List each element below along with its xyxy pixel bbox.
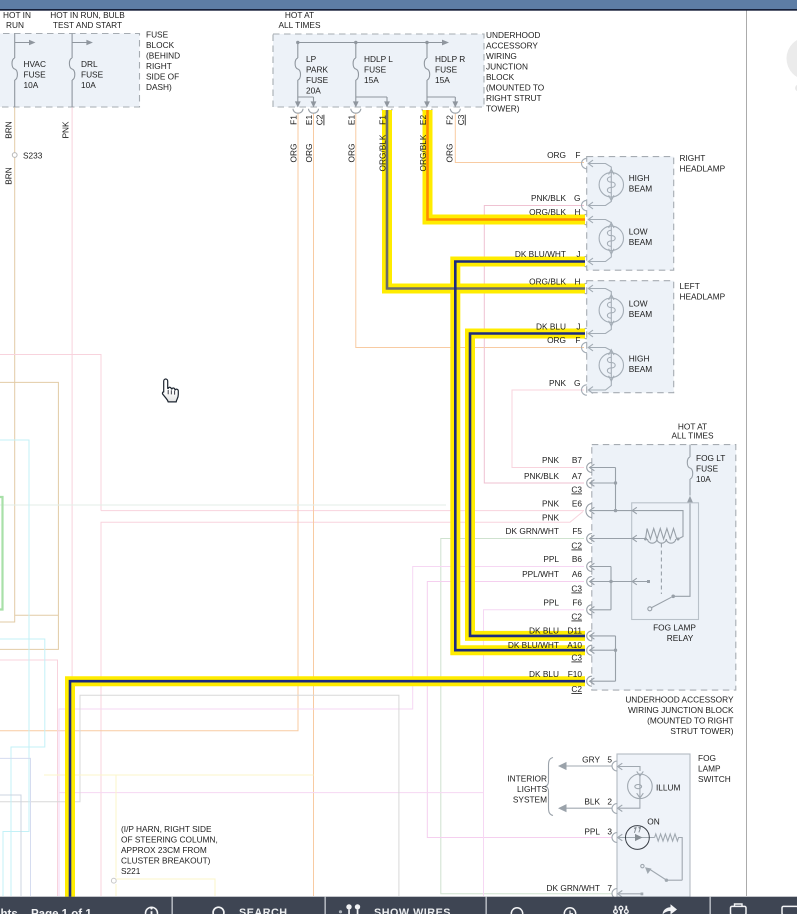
fog box junction dots: [614, 481, 617, 484]
svg-text:B7: B7: [572, 455, 583, 465]
svg-text:PPL: PPL: [543, 554, 559, 564]
svg-text:ORG/BLK: ORG/BLK: [529, 277, 566, 287]
svg-text:FUSE: FUSE: [696, 464, 719, 474]
fog box junction vertical B6-F6: [610, 567, 612, 610]
wire ORG/BLK highlight from HDLP L fuse F1 to left headlamp H: [387, 110, 585, 289]
svg-text:3: 3: [607, 826, 612, 836]
svg-text:BEAM: BEAM: [629, 309, 653, 319]
svg-text:HOT IN: HOT IN: [3, 10, 31, 20]
svg-text:ACCESSORY: ACCESSORY: [486, 41, 538, 51]
wire PNK from DRL fuse down to junction: [71, 107, 73, 896]
underhood accessory wiring junction block dashed box (fog relay): [592, 445, 736, 690]
svg-text:C2: C2: [571, 541, 582, 551]
svg-text:RUN: RUN: [6, 20, 24, 30]
svg-text:JUNCTION: JUNCTION: [486, 62, 528, 72]
svg-text:ALL TIMES: ALL TIMES: [279, 20, 321, 30]
svg-text:PARK: PARK: [306, 65, 328, 75]
svg-text:A10: A10: [567, 640, 582, 650]
relay A6 contact square: [647, 580, 650, 583]
wire BRN from HVAC fuse to S233: [14, 107, 16, 153]
fog lt fuse element: [687, 457, 692, 479]
svg-text:BLOCK: BLOCK: [486, 72, 515, 82]
wire DK GRN/WHT from fog block pin F5 to switch pin 7: [441, 539, 612, 894]
svg-text:E2: E2: [418, 115, 428, 126]
ui circle top right: [787, 37, 797, 80]
svg-text:HIGH: HIGH: [629, 173, 650, 183]
wire ORG from LP PARK fuse pin E1 down page: [313, 113, 315, 896]
relay switch contact circle: [648, 607, 652, 611]
svg-text:Page 1 of 1: Page 1 of 1: [31, 908, 92, 914]
fog box pin F5 line: [590, 538, 646, 540]
svg-text:(I/P HARN, RIGHT SIDE: (I/P HARN, RIGHT SIDE: [121, 824, 212, 834]
fog switch ON indicator: [626, 826, 650, 850]
svg-text:PPL: PPL: [543, 598, 559, 608]
svg-text:G: G: [574, 193, 580, 203]
svg-text:E1: E1: [346, 115, 356, 126]
wire ORG/BLK core (HDLP R E2): [428, 110, 586, 220]
svg-text:SHOW WIRES: SHOW WIRES: [374, 907, 451, 914]
fog switch pin7 end square: [641, 893, 644, 896]
svg-text:G: G: [574, 378, 580, 388]
svg-text:hts: hts: [1, 908, 18, 914]
svg-text:SWITCH: SWITCH: [698, 774, 731, 784]
svg-text:SIDE OF: SIDE OF: [146, 72, 179, 82]
svg-text:E1: E1: [304, 115, 314, 126]
fog box pin B6 line: [590, 566, 612, 568]
svg-text:DK GRN/WHT: DK GRN/WHT: [506, 526, 559, 536]
left headlamp dashed box: [587, 281, 674, 393]
svg-text:ON: ON: [647, 817, 659, 827]
relay output up arrowhead: [687, 496, 693, 503]
svg-text:PNK: PNK: [542, 498, 560, 508]
fog lt fuse leads: [689, 445, 691, 496]
svg-text:C3: C3: [571, 485, 582, 495]
fuse LP PARK leads: [298, 43, 314, 103]
fuse DRL element: [69, 58, 74, 80]
svg-text:A7: A7: [572, 471, 583, 481]
fog switch arm arrowhead: [645, 867, 652, 874]
svg-text:E6: E6: [572, 498, 583, 508]
wire GRN stub left edge: [0, 497, 3, 610]
svg-text:LOW: LOW: [629, 299, 648, 309]
svg-text:FUSE: FUSE: [435, 65, 458, 75]
svg-text:C3: C3: [571, 584, 582, 594]
pin down arrowheads: [295, 101, 301, 107]
wire PNK stub left edge: [0, 660, 58, 896]
fuse HDLP R leads: [427, 43, 455, 103]
svg-text:INTERIOR: INTERIOR: [507, 774, 547, 784]
svg-text:ORG/BLK: ORG/BLK: [529, 207, 566, 217]
svg-text:PNK: PNK: [549, 378, 567, 388]
wire ORG/BLK highlight from HDLP R fuse E2 to right headlamp H: [428, 110, 586, 220]
wire ORG from HDLP L fuse pin E1 to left headlamp pin F: [356, 113, 584, 348]
svg-text:DK BLU: DK BLU: [529, 626, 559, 636]
wire PPL vertical stub continuing: [483, 793, 485, 896]
svg-text:DK BLU/WHT: DK BLU/WHT: [515, 249, 566, 259]
svg-text:7: 7: [607, 883, 612, 893]
svg-text:FUSE: FUSE: [81, 70, 104, 80]
svg-text:C2: C2: [571, 612, 582, 622]
svg-text:LEFT: LEFT: [680, 281, 700, 291]
svg-text:BRN: BRN: [4, 167, 14, 185]
fog box pin arcs: [587, 463, 592, 473]
fog switch contact circle: [641, 864, 644, 867]
svg-text:CLUSTER BREAKOUT): CLUSTER BREAKOUT): [121, 856, 211, 866]
wire blue-gray stub: [0, 795, 21, 896]
svg-text:FUSE: FUSE: [306, 75, 329, 85]
fog switch pin3 lead through lamp: [619, 837, 655, 839]
fog lamp relay box: [632, 503, 699, 620]
wire DK BLU highlight left headlamp J to fog block D11: [470, 334, 585, 636]
wire PPL from fog block pin F6 down: [59, 610, 584, 793]
interior lights brace: [546, 758, 554, 816]
svg-text:UNDERHOOD: UNDERHOOD: [486, 30, 540, 40]
svg-text:C2: C2: [571, 684, 582, 694]
wire PPL from fog block pin B6 staircase: [59, 567, 584, 897]
wire PNK horizontal upper to left edge: [0, 355, 101, 511]
svg-text:ALL TIMES: ALL TIMES: [672, 431, 714, 441]
bus junction dots: [29, 40, 458, 108]
svg-text:F1: F1: [378, 115, 388, 125]
svg-text:F: F: [575, 335, 580, 345]
svg-text:FOG LT: FOG LT: [696, 453, 725, 463]
svg-text:WIRING: WIRING: [486, 51, 517, 61]
wire ORG from HDLP R fuse pin F2 to right headlamp pin F: [455, 113, 584, 163]
wire PNK E6 horizontal to fog block: [101, 510, 584, 512]
svg-text:DASH): DASH): [146, 82, 172, 92]
fog switch contact arm: [649, 869, 683, 881]
underhood accessory wiring junction block dashed box (top): [273, 34, 484, 107]
icon zoom: [511, 908, 522, 914]
bus arrowhead: [442, 40, 449, 46]
fuse HVAC vertical lead: [14, 34, 16, 108]
svg-text:HOT AT: HOT AT: [285, 10, 314, 20]
svg-text:HVAC: HVAC: [24, 59, 46, 69]
wire BRN from S233 down, staircase to left edge: [0, 158, 15, 623]
relay coil loops: [648, 539, 676, 543]
fog switch ILLUM bulb: [628, 774, 653, 799]
svg-text:DK BLU: DK BLU: [536, 322, 566, 332]
right headlamp low beam bulb: [599, 226, 623, 250]
svg-text:BEAM: BEAM: [629, 184, 653, 194]
svg-text:S233: S233: [23, 151, 43, 161]
svg-text:F1: F1: [289, 115, 299, 125]
svg-text:ORG/BLK: ORG/BLK: [418, 134, 428, 171]
interior lights arrows: [558, 762, 612, 812]
wire PNK second to pin E6 with diagonal: [101, 512, 583, 897]
tap arrowheads: [29, 40, 36, 45]
svg-text:20A: 20A: [306, 86, 321, 96]
svg-text:DK BLU/WHT: DK BLU/WHT: [508, 640, 559, 650]
fog box pin E6 line into relay: [590, 510, 633, 512]
svg-text:ORG: ORG: [547, 335, 566, 345]
svg-text:HOT IN RUN, BULB: HOT IN RUN, BULB: [50, 10, 125, 20]
svg-text:10A: 10A: [24, 80, 39, 90]
svg-text:DK BLU: DK BLU: [529, 669, 559, 679]
fog switch resistor: [655, 834, 683, 880]
svg-text:LOW: LOW: [629, 227, 648, 237]
relay coil feed from E6: [632, 511, 683, 539]
svg-text:A6: A6: [572, 569, 583, 579]
wire DK BLU core (D11): [470, 334, 585, 636]
svg-text:F: F: [575, 150, 580, 160]
top window bar: [0, 0, 797, 9]
svg-text:DRL: DRL: [81, 59, 98, 69]
fuse HDLP R element: [424, 58, 429, 80]
svg-text:GRY: GRY: [582, 755, 600, 765]
wire DK BLU/WHT core: [455, 262, 585, 651]
TOOLBAR: [0, 897, 797, 914]
wire LT BLU upper loop: [0, 440, 29, 896]
icon print: [731, 906, 747, 914]
wire ORG/BLK core (HDLP L F1): [387, 110, 585, 289]
svg-text:B6: B6: [572, 554, 583, 564]
svg-text:HEADLAMP: HEADLAMP: [680, 164, 726, 174]
svg-text:15A: 15A: [435, 75, 450, 85]
svg-text:LIGHTS: LIGHTS: [517, 784, 547, 794]
fog box pin F6 line: [590, 609, 612, 611]
relay actuator dashed: [660, 544, 662, 595]
fog box pin B7 line: [590, 467, 616, 469]
headlamp bulb arrowheads: [609, 169, 614, 200]
svg-text:(BEHIND: (BEHIND: [146, 51, 180, 61]
relay switch pivot dot: [671, 595, 675, 599]
svg-text:BEAM: BEAM: [629, 364, 653, 374]
svg-text:BLOCK: BLOCK: [146, 40, 175, 50]
wire BRN branch to right vertical: [0, 382, 58, 649]
fog switch pin arcs: [612, 761, 617, 771]
right headlamp dashed box: [587, 157, 674, 271]
pin breakout arcs below junction block: [293, 109, 460, 113]
svg-text:10A: 10A: [696, 474, 711, 484]
tap arrow HVAC: [15, 42, 31, 44]
svg-text:TEST AND START: TEST AND START: [53, 20, 122, 30]
svg-text:15A: 15A: [364, 75, 379, 85]
svg-text:HIGH: HIGH: [629, 354, 650, 364]
wire GRY loop lower area: [0, 695, 399, 896]
svg-text:PNK/BLK: PNK/BLK: [524, 471, 560, 481]
headlamp pin chevrons: [588, 160, 593, 265]
fog box junction vertical D11-F10: [615, 636, 617, 681]
relay coil zigzag: [646, 529, 679, 540]
svg-text:FOG LAMP: FOG LAMP: [653, 623, 696, 633]
svg-text:LP: LP: [306, 54, 317, 64]
left headlamp low beam bulb: [599, 298, 623, 322]
svg-text:PPL/WHT: PPL/WHT: [522, 569, 559, 579]
svg-text:RIGHT: RIGHT: [680, 153, 706, 163]
wire LT BLU/lavender stub: [0, 758, 31, 896]
svg-text:ORG: ORG: [444, 144, 454, 163]
svg-text:FUSE: FUSE: [146, 30, 169, 40]
svg-text:FUSE: FUSE: [364, 65, 387, 75]
svg-text:TOWER): TOWER): [486, 104, 520, 114]
svg-text:OF STEERING COLUMN,: OF STEERING COLUMN,: [121, 835, 218, 845]
svg-text:HDLP L: HDLP L: [364, 54, 393, 64]
svg-text:STRUT TOWER): STRUT TOWER): [670, 726, 733, 736]
svg-text:PNK: PNK: [542, 455, 560, 465]
fuse DRL vertical lead: [71, 34, 73, 108]
tap arrow DRL: [72, 42, 88, 44]
svg-text:ORG/BLK: ORG/BLK: [378, 134, 388, 171]
svg-text:PNK: PNK: [61, 121, 71, 139]
wire YEL pale to S221 splice: [44, 775, 314, 896]
svg-text:ILLUM: ILLUM: [656, 783, 681, 793]
svg-text:APPROX 23CM FROM: APPROX 23CM FROM: [121, 845, 207, 855]
svg-text:(MOUNTED TO: (MOUNTED TO: [486, 83, 545, 93]
icon partial right: [782, 906, 797, 914]
headlamp pin arcs: [582, 158, 587, 168]
svg-text:J: J: [576, 249, 580, 259]
fuse HVAC element: [12, 58, 17, 80]
svg-text:BEAM: BEAM: [629, 237, 653, 247]
page right border: [746, 11, 748, 897]
svg-text:F5: F5: [572, 526, 582, 536]
fog box pin F10 line: [590, 680, 616, 682]
svg-text:LAMP: LAMP: [698, 764, 721, 774]
right headlamp high beam bulb: [599, 173, 623, 197]
svg-text:DK GRN/WHT: DK GRN/WHT: [547, 883, 600, 893]
fuse block (behind right side of dash) dashed box: [0, 34, 140, 108]
wire PNK/BLK from right headlamp pin G to fog block pin A7: [484, 206, 584, 484]
svg-text:PPL: PPL: [584, 826, 600, 836]
svg-text:J: J: [576, 322, 580, 332]
svg-text:SYSTEM: SYSTEM: [513, 795, 547, 805]
wire PNK from left headlamp pin G to fog block pin B7: [512, 390, 584, 468]
left headlamp high beam bulb: [599, 353, 623, 377]
icon adjust bars: [616, 906, 627, 914]
svg-text:ORG: ORG: [346, 144, 356, 163]
svg-text:ORG: ORG: [304, 144, 314, 163]
svg-text:2: 2: [607, 796, 612, 806]
svg-text:5: 5: [607, 755, 612, 765]
svg-text:F10: F10: [568, 669, 583, 679]
wire DK BLU highlight fog block F10 down page: [70, 681, 585, 897]
svg-text:ORG: ORG: [289, 144, 299, 163]
fog box junction vertical B7-E6: [615, 468, 617, 511]
svg-text:ORG: ORG: [547, 150, 566, 160]
splice S221: [111, 878, 116, 883]
fog lamp switch box: [617, 754, 690, 897]
wire ORG from LP PARK fuse pin F1: [0, 113, 298, 731]
icon info: [146, 907, 158, 914]
svg-text:F6: F6: [572, 598, 582, 608]
svg-text:C2: C2: [315, 114, 325, 125]
fuse LP PARK element: [295, 58, 300, 80]
fog box pin A10 line: [590, 649, 616, 651]
relay switch arm: [652, 504, 690, 608]
icon clock: [564, 908, 575, 914]
svg-text:BRN: BRN: [4, 121, 14, 139]
svg-text:C3: C3: [571, 653, 582, 663]
bus line HOT AT ALL TIMES: [298, 42, 443, 44]
svg-text:S221: S221: [121, 866, 141, 876]
svg-text:PNK: PNK: [542, 513, 560, 523]
svg-text:BLK: BLK: [584, 796, 600, 806]
svg-text:H: H: [575, 207, 581, 217]
svg-text:UNDERHOOD ACCESSORY: UNDERHOOD ACCESSORY: [625, 695, 734, 705]
svg-text:(MOUNTED TO RIGHT: (MOUNTED TO RIGHT: [647, 716, 733, 726]
svg-text:SEARCH: SEARCH: [239, 907, 288, 914]
svg-text:RIGHT STRUT: RIGHT STRUT: [486, 93, 542, 103]
fuse HDLP L leads: [356, 43, 387, 103]
icon show wires pins: [346, 904, 351, 909]
svg-text:F2: F2: [444, 115, 454, 125]
fog box pin A6 line into relay: [590, 581, 648, 583]
wire DK BLU core (F10): [70, 681, 585, 897]
fuse HDLP L element: [353, 58, 358, 80]
svg-text:RELAY: RELAY: [667, 633, 694, 643]
svg-text:RIGHT: RIGHT: [146, 61, 172, 71]
svg-text:HEADLAMP: HEADLAMP: [680, 292, 726, 302]
icon magnifier: [213, 907, 224, 914]
wire PPL/WHT from fog block pin A6 to switch pin 3: [427, 582, 612, 838]
wire DK BLU/WHT highlight right headlamp J to fog block A10: [455, 262, 585, 651]
fog box pin chevrons: [590, 464, 595, 542]
svg-text:10A: 10A: [81, 80, 96, 90]
svg-text:PNK/BLK: PNK/BLK: [531, 193, 567, 203]
fog box pin A7 line: [590, 482, 616, 484]
svg-text:D11: D11: [567, 626, 582, 636]
svg-text:HDLP R: HDLP R: [435, 54, 465, 64]
icon share: [663, 904, 678, 914]
svg-text:WIRING JUNCTION BLOCK: WIRING JUNCTION BLOCK: [628, 705, 734, 715]
svg-text:C3: C3: [456, 114, 466, 125]
wire LT BLU lower staircase: [0, 639, 45, 896]
fog box pin D11 line: [590, 635, 616, 637]
fog switch pin7 lead: [619, 893, 641, 895]
fog switch arm pivot dot: [665, 879, 668, 882]
wire faint grn horizontal: [0, 504, 446, 506]
relay edge chevrons: [632, 507, 637, 585]
svg-text:H: H: [575, 277, 581, 287]
splice S233: [12, 153, 17, 158]
wire BRN lower branch: [15, 614, 59, 616]
svg-text:FUSE: FUSE: [24, 70, 47, 80]
svg-text:FOG: FOG: [698, 753, 716, 763]
